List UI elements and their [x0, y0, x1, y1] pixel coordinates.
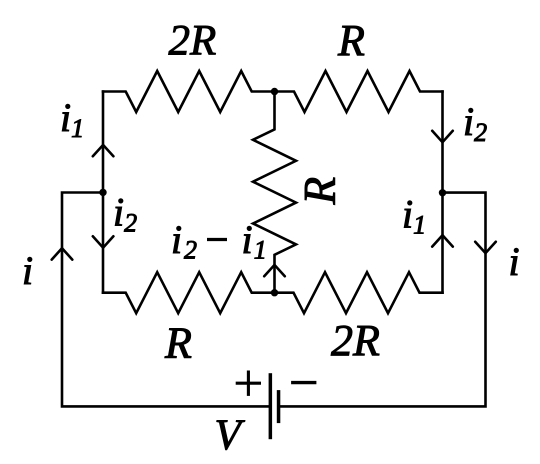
arrow up i2-i1 on middle resistor lead — [264, 265, 285, 276]
svg-text:i: i — [242, 217, 253, 262]
svg-text:i: i — [171, 217, 182, 262]
arrow up i1 on right inner wire — [432, 235, 453, 246]
arrow up i on outer left wire — [52, 248, 73, 259]
junction node bottom middle — [271, 289, 278, 296]
battery V: minus plate (short) — [277, 390, 281, 423]
svg-text:i2: i2 — [463, 99, 487, 147]
svg-text:2R: 2R — [331, 316, 380, 365]
wire right inner vertical — [441, 92, 444, 293]
junction node right — [439, 189, 446, 196]
svg-text:i: i — [22, 248, 33, 293]
svg-text:2: 2 — [184, 236, 197, 265]
junction node top middle — [271, 88, 278, 95]
battery minus sign — [291, 381, 316, 384]
svg-text:i1: i1 — [60, 95, 84, 143]
resistor 2R bottom-right — [275, 272, 443, 313]
junction node left — [99, 189, 106, 196]
svg-text:1: 1 — [254, 236, 267, 265]
resistor R middle vertical — [253, 92, 296, 293]
svg-text:i1: i1 — [402, 192, 426, 240]
arrow up i1 on left inner wire — [93, 145, 114, 156]
svg-text:i: i — [509, 239, 520, 284]
arrow down i2 on left inner wire — [93, 236, 114, 247]
resistor R top-right — [275, 71, 443, 112]
resistor 2R top-left — [103, 71, 275, 112]
arrow down i2 on right inner wire — [432, 131, 453, 142]
label i2 - i1 : minus — [207, 238, 227, 241]
wire left inner vertical (top node to bottom-left corner) — [102, 92, 105, 293]
battery V: plus plate (long) — [269, 373, 273, 439]
svg-text:R: R — [295, 177, 345, 206]
resistor R bottom-left — [103, 272, 275, 313]
arrow down i on outer right wire — [475, 242, 496, 253]
svg-text:V: V — [215, 412, 246, 459]
wire outer right (battery - terminal to right node) — [280, 193, 486, 407]
svg-text:i2: i2 — [113, 190, 137, 238]
svg-text:2R: 2R — [169, 18, 217, 65]
wire outer left (node to battery + terminal) — [62, 193, 269, 407]
svg-text:R: R — [337, 16, 365, 65]
svg-text:R: R — [164, 319, 192, 368]
battery plus sign — [236, 371, 261, 396]
